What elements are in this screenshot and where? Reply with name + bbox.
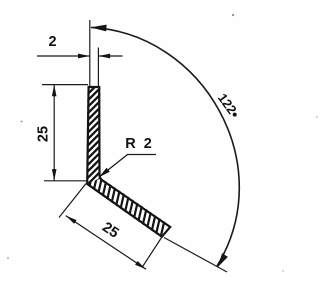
svg-text:122: 122 xyxy=(215,91,240,117)
arrow angled 25 left xyxy=(66,216,77,224)
arrow left 25 down xyxy=(52,169,57,181)
angle profile outline xyxy=(87,87,170,237)
arrow arc bottom xyxy=(217,253,228,267)
dimension line 2 left segment xyxy=(37,55,90,57)
extension line bottom-right (for angled 25 dim) xyxy=(142,233,165,268)
extension line right edge (for 2 dim) xyxy=(97,48,99,87)
svg-text:25: 25 xyxy=(99,219,121,241)
svg-text:2: 2 xyxy=(48,34,56,50)
hatching angled leg xyxy=(89,171,164,239)
angle dimension arc 122 deg xyxy=(91,27,239,266)
arrow R2 xyxy=(99,168,110,177)
svg-text:25: 25 xyxy=(36,126,52,142)
svg-text:R 2: R 2 xyxy=(125,136,154,152)
extension line top (for left 25 dim) xyxy=(42,84,88,86)
arrow arc top xyxy=(90,25,106,32)
extension line bottom-left (for angled 25 dim) xyxy=(59,184,86,218)
extension line left edge (for 2 dim and angle dim) xyxy=(89,20,91,87)
dimension line 2 right segment xyxy=(98,55,122,57)
leader line R2 xyxy=(99,155,156,178)
extension line along angled leg axis (for angle dim) xyxy=(164,238,227,273)
arrow left 25 up xyxy=(52,85,57,97)
arrow angled 25 right xyxy=(135,261,146,269)
arrow 2 right xyxy=(98,54,110,59)
degree dot xyxy=(233,113,237,117)
extension line bottom (for left 25 dim) xyxy=(44,180,87,182)
arrow 2 left xyxy=(78,54,90,59)
dimension line left 25 xyxy=(53,85,55,181)
scan specks xyxy=(21,121,23,123)
dimension line angled 25 xyxy=(66,216,146,270)
hatching vertical leg xyxy=(87,75,101,192)
